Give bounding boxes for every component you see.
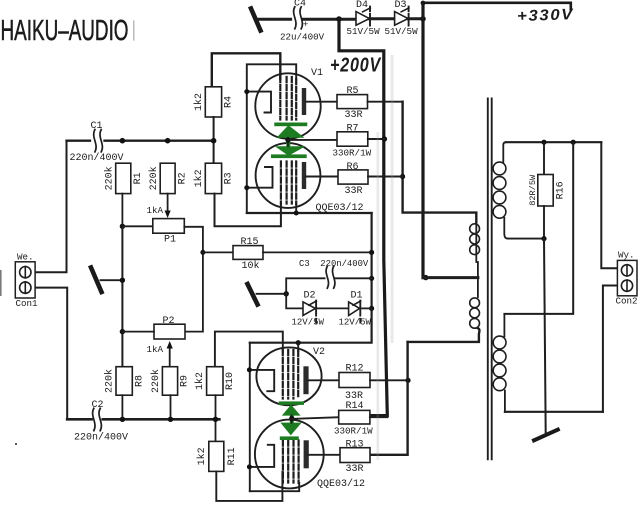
svg-text:220n/400V: 220n/400V [70,152,124,164]
junction R8 bottom [120,417,125,422]
transformer core [488,99,492,460]
V1a anode [302,88,306,115]
chassis slash at C4 [251,9,261,31]
V2a grid2 entry [297,343,299,351]
junction R12 column [405,378,410,383]
svg-text:R6: R6 [347,162,359,173]
wire R6 to column [368,176,403,178]
resistor R4 1k2 [193,87,234,117]
svg-text:+200V: +200V [330,55,382,77]
wire junction to D2 [286,294,303,309]
resistor R9 220k [150,367,191,396]
wire input left column [31,141,67,273]
transformer secondary lower winding [493,314,506,412]
wire input top rail [67,140,214,142]
wire R2 to P1 wiper [167,194,169,212]
svg-text:P1: P1 [164,235,176,246]
svg-text:Wy.: Wy. [618,250,635,261]
svg-text:82R/5W: 82R/5W [528,174,538,206]
capacitor C1 220n/400V [70,121,124,164]
junction V1b grid2 [294,211,299,216]
V1b cathode [247,167,273,188]
wire +200V rail [339,19,387,416]
wire slash to bias column [101,279,123,281]
svg-text:+330V: +330V [517,6,575,25]
svg-text:R10: R10 [225,372,236,390]
svg-text:1kA: 1kA [147,205,164,216]
wire P1 left lead [122,225,152,227]
svg-text:+: + [303,20,308,30]
V2 upper envelope [256,347,321,405]
V1b grid2 stub [295,204,297,213]
wire R9 bottom [170,395,172,419]
svg-text:D1: D1 [351,291,363,302]
wire C3 left [286,278,324,294]
svg-text:D2: D2 [304,291,316,302]
svg-text:33R: 33R [345,186,363,197]
junction R10/R11 rail [213,417,218,422]
svg-text:1k2: 1k2 [193,169,205,187]
wire R8 bottom [121,395,123,419]
V1 beam plates green [271,123,307,159]
resistor R6 33R [338,162,368,197]
wire R4 to R3 [213,117,215,163]
svg-text:12V/5W: 12V/5W [339,317,372,327]
capacitor C3 220n/400V [299,259,369,288]
V2 screen center stub [291,415,293,423]
wire V2 screen lead [291,417,339,419]
svg-text:330R/1W: 330R/1W [333,147,372,158]
svg-text:C2: C2 [92,400,104,411]
wire V2b anode lead [308,454,340,456]
junction V1a cathode [244,89,249,94]
resistor R3 1k2 [193,163,234,193]
junction P2 left [120,329,125,334]
wire R16 top lead [543,142,545,174]
junction secondary bottom [541,236,546,241]
potentiometer P1 1kA [147,205,185,245]
wire slash to junction [257,293,287,295]
wire Con2 bottom lead [603,286,618,412]
P2 wiper arrowhead [167,341,173,349]
P1 wiper arrowhead [165,211,171,219]
V1 bus and grid2 entry [247,64,296,213]
svg-text:Con2: Con2 [616,295,638,306]
wire C4 to D4 [303,18,355,21]
svg-text:V2: V2 [313,347,325,358]
wire V2a anode lead [308,379,339,381]
junction R6 column [400,174,405,179]
wire V1a anode lead [306,101,337,103]
junction +330V rail [421,1,426,6]
diode D4 zener 51V/5W [347,0,381,37]
svg-text:R13: R13 [346,439,364,450]
chassis slash at Con1 [91,268,102,293]
svg-text:R2: R2 [177,172,188,184]
wire R11 to V2b grid [216,471,282,501]
V2 beam plates green [279,401,304,440]
tube V1 QQE03/12 [244,64,363,215]
V2b grid wires [283,441,299,484]
V2 box bottom to grid2 [250,483,299,491]
junction R9 bottom [168,417,173,422]
wire R3 to V1b grid [215,194,281,227]
wire V1 screen lead [288,139,337,141]
wire R4 top to V1a grid [212,53,280,87]
V1b anode [302,162,306,189]
transformer secondary upper winding [493,142,507,238]
wire D4 to D3 [369,17,394,20]
V1 screen center stub [287,138,289,147]
svg-text:220n/400V: 220n/400V [74,432,128,444]
svg-text:1k2: 1k2 [196,447,208,465]
junction C3 right [369,276,374,281]
title edge tick [133,21,135,40]
svg-text:QQE03/12: QQE03/12 [316,202,364,214]
svg-text:51V/5W: 51V/5W [347,26,381,37]
svg-text:R7: R7 [347,123,359,134]
resistor R14 330R/1W [334,401,373,436]
wire V1b anode lead [306,176,338,178]
svg-text:D3: D3 [395,0,407,11]
junction +200V takeoff [336,16,342,22]
junction R15 column [369,250,374,255]
svg-text:HAIKU–AUDIO: HAIKU–AUDIO [1,15,129,47]
junction R1/P1 [120,224,125,229]
svg-text:220k: 220k [148,166,160,190]
svg-text:R3: R3 [223,172,234,184]
junction slash bias [120,278,125,283]
junction V2 screen node [289,416,294,421]
wire output tap column [504,142,573,314]
svg-text:220k: 220k [150,369,162,393]
svg-text:33R: 33R [346,464,364,475]
wire P2 left lead [122,331,154,333]
svg-text:330R/1W: 330R/1W [334,425,373,436]
V1 lower envelope [256,143,321,208]
wire output column to primary bottom [408,328,480,342]
svg-text:220k: 220k [103,369,115,393]
diode D2 zener 12V/5W [292,291,325,328]
junction riser base [420,16,426,22]
V2 bus [249,343,251,492]
wire C3 right [335,277,371,279]
svg-text:R5: R5 [347,86,359,97]
ground slash [534,430,558,441]
capacitor C2 220n/400V [74,400,128,444]
V2a cathode [249,370,274,391]
junction R7 at +200V [382,136,387,141]
svg-text:C1: C1 [91,121,103,132]
wire R10 to R11 [215,395,217,441]
junction R15 left [200,250,205,255]
connector Con2 output [616,250,638,307]
junction V1 screen node [285,137,290,142]
V2 lower envelope [255,420,324,489]
V1a cathode [247,92,271,113]
svg-text:R4: R4 [223,96,234,108]
transformer primary upper winding [470,223,480,278]
junction center tap [423,275,428,280]
svg-text:D4: D4 [356,0,368,11]
svg-text:C3 220n/400V: C3 220n/400V [299,259,369,269]
wire R1 bottom [121,194,123,227]
wire P2 wiper arrow [169,348,171,367]
wire D3 to riser [408,17,423,20]
wire P1 right to P2 column [184,227,203,332]
diode D3 zener 51V/5W [385,0,419,37]
svg-text:R12: R12 [346,363,364,374]
V1a grid wires [280,77,296,120]
V2b anode [304,440,309,468]
svg-text:1kA: 1kA [147,344,164,355]
wire secondary upper bottom [508,238,545,240]
wire output column [370,342,408,455]
connector Con1 input [15,251,38,309]
wire R10 to V2a grid [215,332,283,367]
V1 upper envelope [255,73,320,138]
junction R16 top [541,140,546,145]
junction slash column [284,291,289,296]
wire R15 right lead [263,251,372,253]
svg-text:1k2: 1k2 [193,93,205,111]
wire bottom rail [67,418,219,421]
svg-text:P2: P2 [163,316,175,327]
junction R2 top [165,138,171,144]
scan streaks (decorative) [377,132,380,460]
wire V1 box bottom [247,212,372,214]
resistor R8 220k [103,367,145,396]
transformer primary lower winding [470,278,480,329]
svg-text:220k: 220k [103,166,115,190]
wire slash to C4 [258,18,291,21]
svg-text:22u/400V: 22u/400V [280,31,325,42]
resistor R7 330R/1W [333,123,372,158]
svg-text:51V/5W: 51V/5W [385,26,419,37]
resistor R12 33R [339,363,370,402]
junction R1 top [120,138,126,144]
wire R5 to anode column [368,101,403,103]
wire center tap [423,276,478,279]
svg-text:R14: R14 [346,401,364,412]
junction V2b cathode [247,464,252,469]
resistor R5 33R [337,86,368,121]
V2a grid wires [283,350,298,399]
wire ground column [544,239,546,434]
node +330V rail [423,3,571,10]
resistor R15 10k [233,237,263,272]
wire R12 to output column [370,379,408,381]
tube V2 QQE03/12 [247,343,365,492]
wire R14 to +200V [370,416,387,418]
wire bias column [121,226,123,366]
wire input bottom column [31,288,67,420]
V1b grid wires [281,162,296,205]
svg-text:1k2: 1k2 [194,372,206,390]
V2a anode [303,366,308,394]
wire D1 to column [362,307,372,309]
junction V2 grid2 top [296,340,301,345]
wire R7 to +200V [368,138,385,140]
wire +330V riser to center tap [421,3,424,278]
wire Con2 top lead [601,142,617,268]
svg-text:R9: R9 [180,375,191,387]
svg-text:Con1: Con1 [16,298,39,309]
resistor R1 220k [103,163,144,193]
resistor R2 220k [148,163,189,193]
resistor R16 82R/5W [528,174,567,206]
svg-text:R11: R11 [227,447,238,465]
V2b cathode [249,445,274,467]
wire anode column to primary top [403,102,477,223]
svg-text:V1: V1 [311,68,323,79]
wire D2 to D1 [317,307,349,309]
resistor R11 1k2 [196,441,238,471]
svg-text:C4: C4 [294,0,306,10]
svg-text:R15: R15 [241,237,259,248]
junction output tap top [571,140,576,145]
diode D1 zener 12V/5W [339,291,372,328]
junction V1b cathode [244,185,249,190]
svg-text:We.: We. [17,251,34,262]
wire grid2 column to V2 [250,213,372,343]
wire R16 bottom lead [543,206,545,239]
wire secondary top [506,141,601,143]
junction V2a cathode [247,367,252,372]
svg-text:R16: R16 [555,181,566,199]
svg-text:12V/5W: 12V/5W [292,317,325,327]
svg-text:10k: 10k [242,260,260,272]
junction R3 top [211,138,217,144]
potentiometer P2 1kA [147,316,186,355]
wire secondary bottom [505,411,603,413]
svg-text:R1: R1 [133,172,144,184]
resistor R10 1k2 [194,367,236,396]
capacitor C4 22u/400V [280,0,325,42]
svg-text:R8: R8 [134,375,145,387]
chassis slash at P2 [248,284,258,305]
resistor R13 33R [340,439,370,475]
svg-text:QQE03/12: QQE03/12 [317,478,365,490]
wire R15 left lead [203,251,233,253]
svg-text:33R: 33R [345,110,363,121]
junction D1 cathode [369,306,374,311]
